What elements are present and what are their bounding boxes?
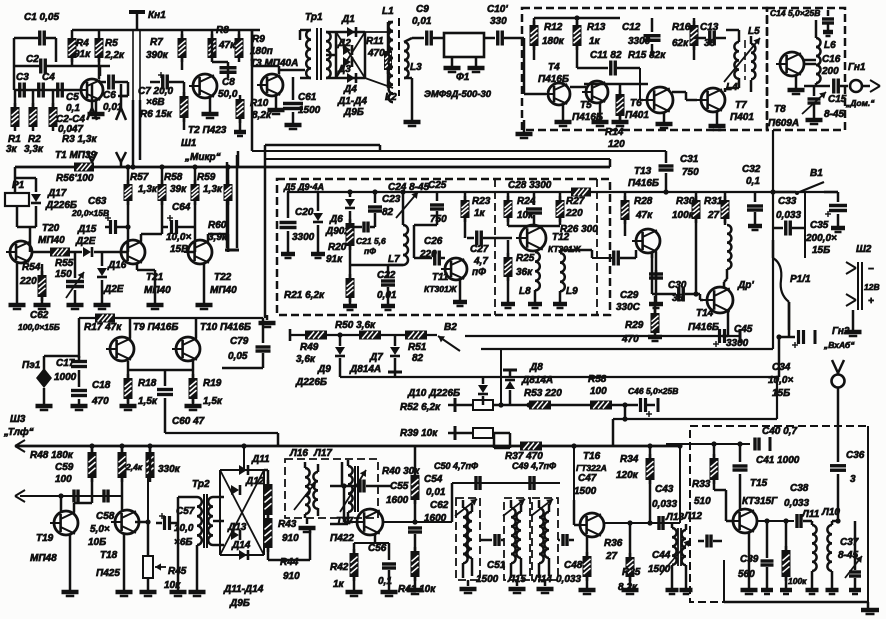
svg-text:8-45: 8-45 xyxy=(824,109,844,120)
capacitor C18 xyxy=(71,391,88,411)
relay contact P1/1 xyxy=(773,240,789,337)
svg-text:ГТ322А: ГТ322А xyxy=(576,463,607,473)
dashed enclosure IF amplifier xyxy=(522,8,767,130)
label Г2д xyxy=(864,282,880,292)
can2 trimmer arrow xyxy=(503,499,525,516)
svg-text:Р1/1: Р1/1 xyxy=(790,274,811,285)
capacitor C34 electrolytic xyxy=(788,302,791,330)
resistor R59 xyxy=(191,167,200,212)
label C25 xyxy=(428,180,447,191)
svg-text:Ф1: Ф1 xyxy=(456,72,470,83)
label 1,5к xyxy=(138,396,158,407)
main bus y167 xyxy=(15,166,610,169)
label 0,033 c38 xyxy=(784,498,809,509)
svg-text:150: 150 xyxy=(55,269,72,280)
svg-text:В1: В1 xyxy=(810,168,823,179)
svg-text:С41 1000: С41 1000 xyxy=(756,455,800,466)
svg-text:R48 180к: R48 180к xyxy=(30,450,74,461)
label Sh3 xyxy=(10,414,26,425)
label ГТ322А xyxy=(576,463,607,473)
capacitor C79 xyxy=(222,318,271,368)
label Tr2 xyxy=(192,479,210,490)
label Tlf xyxy=(3,426,34,438)
label VхAб xyxy=(823,340,855,350)
label R19 xyxy=(203,378,222,389)
label Gn2 xyxy=(832,326,850,337)
dashed enclosure L16-L17 xyxy=(285,459,378,518)
svg-text:Тр2: Тр2 xyxy=(192,479,210,490)
svg-text:С26: С26 xyxy=(424,236,443,247)
resistor R36 xyxy=(579,537,596,594)
svg-text:ЭМФ9Д-500-30: ЭМФ9Д-500-30 xyxy=(424,89,492,100)
capacitor C20 xyxy=(280,192,297,258)
svg-text:Ш1: Ш1 xyxy=(181,138,197,149)
capacitor C32 xyxy=(747,192,763,230)
svg-text:С56: С56 xyxy=(368,543,387,554)
wire L3 to ground xyxy=(404,78,421,126)
antenna jack Gn2 xyxy=(832,360,845,462)
resistor R8 xyxy=(208,30,217,62)
label C57 xyxy=(176,506,195,517)
capacitor C55 xyxy=(330,480,392,493)
wire T15 emitter xyxy=(741,533,758,594)
svg-text:С33: С33 xyxy=(778,196,797,207)
label 82 c23 xyxy=(382,207,394,218)
svg-text:Ш3: Ш3 xyxy=(10,414,26,425)
dashed filter can 3 xyxy=(532,498,558,580)
label 220 c26 xyxy=(419,249,437,260)
label 470 c18 xyxy=(91,396,109,407)
pushbutton Kn1 xyxy=(129,12,145,100)
trimmer arrow through L5 xyxy=(724,38,760,82)
connector Sh2 socket xyxy=(846,262,862,310)
label C62 xyxy=(30,310,49,321)
phone fork contact 1 xyxy=(15,440,25,452)
svg-text:С29: С29 xyxy=(620,290,639,301)
label 10к r45 xyxy=(164,580,181,591)
label П401 t6 xyxy=(625,110,649,121)
svg-text:1600: 1600 xyxy=(424,513,447,524)
svg-text:390к: 390к xyxy=(146,50,169,61)
label C3 xyxy=(16,72,29,83)
label 100к xyxy=(672,210,695,221)
label C10 330 xyxy=(487,4,508,15)
resistor R24 xyxy=(504,192,513,226)
label C34 xyxy=(772,362,791,373)
svg-text:330к: 330к xyxy=(158,464,181,475)
svg-text:1500: 1500 xyxy=(574,486,597,497)
label T11 xyxy=(432,272,449,283)
label R16 62к xyxy=(672,22,691,33)
svg-text:R56ʹ100: R56ʹ100 xyxy=(56,173,94,184)
svg-text:С1 0,05: С1 0,05 xyxy=(24,12,59,23)
resistor R58 xyxy=(158,167,167,227)
svg-text:Л12: Л12 xyxy=(683,511,702,522)
capacitor C43 plates xyxy=(647,516,663,530)
svg-text:Т18: Т18 xyxy=(100,550,118,561)
svg-text:МП40: МП40 xyxy=(38,235,65,246)
diode D12 xyxy=(231,485,240,495)
wire T4-T5 coupling xyxy=(570,86,586,89)
svg-text:Пэ1: Пэ1 xyxy=(22,360,41,371)
T7 emitter down xyxy=(709,112,726,130)
svg-text:R49: R49 xyxy=(300,342,319,353)
svg-text:Гн2: Гн2 xyxy=(832,326,850,337)
label C11 82 xyxy=(590,50,622,61)
connector Sh1 upper pin 2 xyxy=(116,84,128,120)
svg-text:200: 200 xyxy=(821,66,839,77)
capacitor C8 xyxy=(212,62,237,78)
wire T13 emitter to C30b xyxy=(651,253,654,294)
label 0,1 xyxy=(746,176,760,187)
switch B2 xyxy=(438,336,460,351)
label C28 3300 xyxy=(508,180,552,191)
label R55 xyxy=(55,258,74,269)
svg-text:330: 330 xyxy=(490,16,507,27)
svg-text:330С: 330С xyxy=(616,302,641,313)
svg-text:1,3к: 1,3к xyxy=(138,184,158,195)
label T15 xyxy=(750,478,768,489)
transistor T17 xyxy=(353,509,383,535)
label C45 xyxy=(734,324,753,335)
label R59 xyxy=(197,172,216,183)
resistor R54 xyxy=(34,264,51,309)
svg-text:R9: R9 xyxy=(252,34,265,45)
label C20 xyxy=(295,207,314,218)
capacitor C30b plates xyxy=(652,287,703,302)
wire T13 collector down xyxy=(655,252,658,280)
label C55 xyxy=(390,481,409,492)
capacitor C46 electrolytic xyxy=(641,398,659,417)
main ground right xyxy=(861,602,879,614)
coil L9 xyxy=(553,253,567,308)
label R5 2,2к xyxy=(105,38,118,49)
wire y444 inside box xyxy=(666,441,750,446)
label D15 xyxy=(77,224,97,235)
label 100x15В xyxy=(18,322,60,332)
svg-text:2,2к: 2,2к xyxy=(104,50,125,61)
can2 winding b xyxy=(516,504,521,576)
T19 emitter ground xyxy=(62,535,79,596)
wire top rail R4-R5 to Kn1 xyxy=(72,30,137,34)
capacitor C16 plates xyxy=(834,79,848,94)
label R54 xyxy=(22,262,41,273)
label R32 100к xyxy=(788,576,807,586)
label C9 0,01 xyxy=(416,4,429,15)
label plus xyxy=(868,296,874,307)
label L2 xyxy=(385,92,397,103)
label Tr1 xyxy=(305,12,323,23)
svg-text:МП40: МП40 xyxy=(144,285,171,296)
label R58 100 xyxy=(588,374,607,385)
label L16 xyxy=(289,448,308,459)
label 5,0x xyxy=(90,524,110,535)
label МП48 xyxy=(30,553,57,564)
svg-text:R18: R18 xyxy=(138,378,157,389)
svg-text:Д8: Д8 xyxy=(529,362,543,373)
resistor R33 xyxy=(710,444,719,490)
label C26 xyxy=(424,236,443,247)
label 62к xyxy=(672,38,689,49)
svg-text:Т7: Т7 xyxy=(735,100,747,111)
transistor T16 xyxy=(576,513,604,537)
trimmer arrow osc xyxy=(340,470,366,512)
transistor T4 xyxy=(544,83,570,105)
svg-text:С40 0,7: С40 0,7 xyxy=(762,426,797,437)
svg-text:С48: С48 xyxy=(564,560,583,571)
capacitor C62 electrolytic xyxy=(66,252,84,309)
wire left column xyxy=(13,38,16,90)
svg-text:R6 15к: R6 15к xyxy=(140,109,173,120)
svg-text:Л15: Л15 xyxy=(507,574,526,585)
label R10 8,2к xyxy=(250,98,269,109)
label 50x10В xyxy=(218,89,238,100)
junction bus x128 xyxy=(125,164,130,169)
label C33 xyxy=(778,196,797,207)
label R56 *100 xyxy=(56,173,94,184)
capacitor C39 plates xyxy=(761,521,774,594)
label 470 xyxy=(367,48,385,59)
svg-text:100к: 100к xyxy=(672,210,695,221)
svg-text:0,033: 0,033 xyxy=(556,574,581,585)
svg-text:С32: С32 xyxy=(742,164,761,175)
svg-text:R43: R43 xyxy=(278,519,297,530)
transistor T3 xyxy=(257,74,283,96)
svg-text:С15: С15 xyxy=(828,94,847,105)
core osc xyxy=(355,466,358,512)
svg-text:0,01: 0,01 xyxy=(377,290,397,301)
svg-text:Д6: Д6 xyxy=(329,214,343,225)
transistor T8 xyxy=(776,52,804,76)
svg-text:С54: С54 xyxy=(424,474,443,485)
diode D3 xyxy=(343,57,352,67)
label C49 4,7пФ xyxy=(512,461,556,471)
wire T14 collector down xyxy=(727,312,730,336)
svg-text:3: 3 xyxy=(850,474,856,485)
capacitor C4 xyxy=(39,83,44,98)
label 36 xyxy=(704,38,716,49)
svg-text:R12: R12 xyxy=(544,22,563,33)
label P1 xyxy=(12,180,25,191)
transistor T19 xyxy=(50,511,78,535)
label R60 xyxy=(208,220,227,231)
wire Tr2 tap ground xyxy=(170,523,187,596)
diode D10 xyxy=(478,377,488,405)
label B1 xyxy=(810,168,823,179)
svg-text:0,033: 0,033 xyxy=(784,498,809,509)
svg-text:Т4: Т4 xyxy=(548,62,560,73)
svg-text:L3: L3 xyxy=(410,62,422,73)
label R57 xyxy=(130,172,149,183)
wire emitters rail y370 xyxy=(128,370,193,386)
svg-text:С17: С17 xyxy=(56,358,75,369)
wire T1 collector xyxy=(99,66,110,79)
svg-text:Т8: Т8 xyxy=(774,104,786,115)
label C48 xyxy=(564,560,583,571)
svg-text:1000: 1000 xyxy=(54,372,77,383)
wire T3 emitter xyxy=(268,96,285,114)
label Л10 xyxy=(821,507,840,518)
label Д814А xyxy=(349,364,381,375)
label 10,0x xyxy=(768,375,793,386)
label R47 label xyxy=(125,462,143,472)
svg-text:R35: R35 xyxy=(622,567,641,578)
wire osc out xyxy=(330,462,348,524)
label T1 МП39 xyxy=(55,150,97,161)
svg-text:82: 82 xyxy=(382,207,394,218)
coil L4-L5 IF transformer left winding xyxy=(734,42,739,79)
svg-text:4,7: 4,7 xyxy=(473,256,488,267)
svg-text:Д15: Д15 xyxy=(77,224,97,235)
label T14 xyxy=(696,308,714,319)
svg-text:R57: R57 xyxy=(130,172,149,183)
junction y192 x350 xyxy=(347,189,352,194)
label C5 0,1 xyxy=(66,92,79,103)
capacitor C23 xyxy=(368,192,382,227)
svg-text:100,0×15Б: 100,0×15Б xyxy=(18,322,60,332)
svg-text:С2: С2 xyxy=(26,54,39,65)
svg-text:Д2Е: Д2Е xyxy=(103,284,124,295)
svg-text:Д4: Д4 xyxy=(343,84,357,95)
label C23 xyxy=(382,194,401,205)
svg-text:R27: R27 xyxy=(566,196,585,207)
can1 winding b xyxy=(467,504,472,576)
wire Sh2 down xyxy=(845,310,862,336)
coil L8 xyxy=(528,251,542,308)
label C16 xyxy=(822,54,841,65)
label П422 xyxy=(330,533,354,544)
svg-text:R17 47к: R17 47к xyxy=(84,322,122,333)
svg-text:Д1-Д4: Д1-Д4 xyxy=(337,96,367,107)
label L3 xyxy=(410,62,422,73)
variable capacitor C24 arrow xyxy=(396,192,418,218)
svg-text:10,0×: 10,0× xyxy=(166,232,191,243)
svg-text:С8: С8 xyxy=(222,77,235,88)
label x6В xyxy=(146,97,165,108)
transformer Tr2 right winding xyxy=(208,497,224,545)
coil L17 xyxy=(313,464,318,516)
diode D4 xyxy=(347,73,356,83)
label 560 xyxy=(738,569,755,580)
label 36к xyxy=(516,267,533,278)
label C38 xyxy=(790,483,809,494)
transistor T12 xyxy=(516,225,546,251)
svg-text:0,033: 0,033 xyxy=(776,210,801,221)
label x6В xyxy=(174,537,192,548)
dashed partition x495 xyxy=(494,179,496,315)
svg-text:Д13: Д13 xyxy=(227,522,247,533)
capacitor C34a electrolytic on wire A xyxy=(713,329,740,347)
svg-text:Л11: Л11 xyxy=(801,509,820,520)
svg-text:R21 6,2к: R21 6,2к xyxy=(284,290,325,301)
capacitor C17 xyxy=(71,356,87,387)
diode D7 zener xyxy=(388,335,402,377)
label 180к xyxy=(542,36,565,47)
svg-text:С55: С55 xyxy=(390,481,409,492)
wire L9 to T13 coupling xyxy=(560,250,612,258)
svg-text:Л17: Л17 xyxy=(313,448,332,459)
svg-text:R20: R20 xyxy=(328,242,347,253)
svg-text:L2: L2 xyxy=(385,92,397,103)
wire x655 from box xyxy=(654,296,657,306)
capacitor C30 plates xyxy=(614,250,636,266)
capacitor C31 xyxy=(659,166,674,170)
label T4 xyxy=(548,62,560,73)
ground can3 xyxy=(537,580,554,593)
ground at box entry xyxy=(516,120,533,138)
label 10В xyxy=(88,537,106,548)
svg-text:R42: R42 xyxy=(330,562,349,573)
label 4,7 xyxy=(473,256,488,267)
label C18 xyxy=(92,380,111,391)
label 47к xyxy=(218,40,236,51)
svg-text:1к: 1к xyxy=(333,579,345,590)
svg-text:Т11: Т11 xyxy=(432,272,449,283)
junction x666 bus xyxy=(663,189,668,194)
wire C37 column xyxy=(849,521,861,594)
svg-text:С79: С79 xyxy=(230,336,249,347)
label Л15 xyxy=(507,574,526,585)
svg-text:1к: 1к xyxy=(589,36,601,47)
junction y192 x403 xyxy=(400,189,405,194)
resistor R43 xyxy=(264,470,273,519)
wire horizontal y145 xyxy=(265,145,380,151)
label 10,0x xyxy=(166,232,191,243)
svg-text:С27: С27 xyxy=(470,244,489,255)
dashed enclosure mixer-oscillator xyxy=(277,179,610,315)
label Д226Б xyxy=(45,200,77,211)
label C29 xyxy=(620,290,639,301)
trimmer arrow L13 xyxy=(660,540,690,575)
label C44 xyxy=(652,550,671,561)
label 120к xyxy=(616,470,639,481)
diode D1 xyxy=(347,27,356,37)
svg-text:50,0: 50,0 xyxy=(218,89,238,100)
svg-text:Т2 П423: Т2 П423 xyxy=(188,125,227,136)
svg-text:0,05: 0,05 xyxy=(228,351,248,362)
wire x779 down xyxy=(778,337,781,377)
label R18 xyxy=(138,378,157,389)
wire pair x227-x237 xyxy=(225,155,239,250)
svg-text:R8: R8 xyxy=(216,25,229,36)
label C36 3 xyxy=(850,474,856,485)
wire x680 down xyxy=(677,443,682,523)
junction y192 x375 xyxy=(372,189,377,194)
svg-text:12В: 12В xyxy=(864,282,880,292)
potentiometer R52 xyxy=(448,398,530,412)
transistor T9 xyxy=(106,337,134,361)
label Д9Б xyxy=(343,107,364,118)
mic fork contact 2 xyxy=(116,152,126,167)
label R25 xyxy=(516,253,535,264)
label R50 3,6к xyxy=(335,320,376,331)
svg-text:пФ: пФ xyxy=(364,246,376,256)
wire ring top to bus xyxy=(241,443,246,470)
capacitor C35 electrolytic xyxy=(825,192,847,232)
junction bus x133 xyxy=(130,164,135,169)
svg-text:С62: С62 xyxy=(430,500,449,511)
label C60 47 xyxy=(172,416,205,427)
svg-text:R7: R7 xyxy=(150,37,163,48)
label 180п xyxy=(250,46,273,57)
capacitor C5 xyxy=(58,83,63,98)
svg-text:Т9 П416Б: Т9 П416Б xyxy=(133,322,178,333)
svg-text:27: 27 xyxy=(605,551,618,562)
label МП40 t21 xyxy=(144,285,171,296)
svg-text:П422: П422 xyxy=(330,533,354,544)
svg-text:1600: 1600 xyxy=(386,495,409,506)
capacitor C34 electrolytic plates xyxy=(779,330,815,348)
